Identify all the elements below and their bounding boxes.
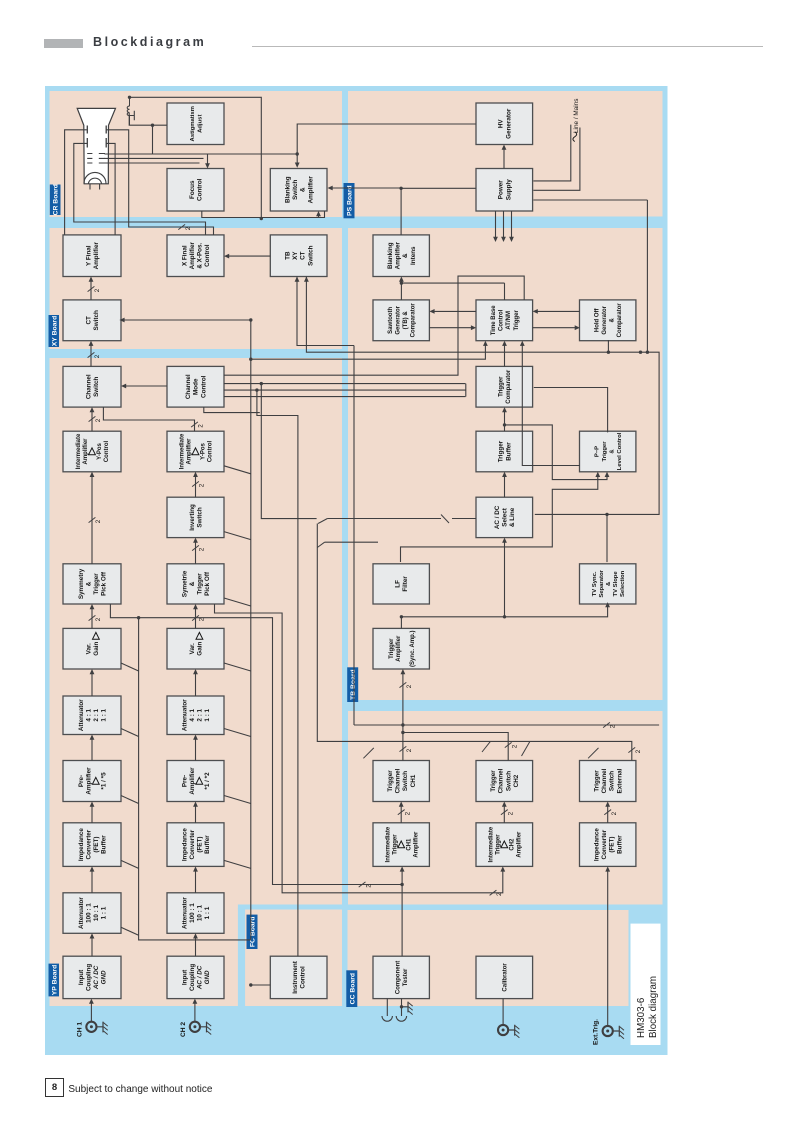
block: HV generator xyxy=(476,103,533,145)
svg-text:Y-Pos: Y-Pos xyxy=(200,443,206,460)
svg-text:2: 2 xyxy=(610,811,617,815)
svg-text:AT/NM: AT/NM xyxy=(506,311,512,330)
svg-text:Impedance: Impedance xyxy=(181,828,188,861)
svg-text:XY Board: XY Board xyxy=(51,316,58,346)
wire CRT grid 2 xyxy=(104,157,203,159)
label line/mains xyxy=(572,132,576,142)
svg-text:Coupling: Coupling xyxy=(85,964,92,991)
wire channel mode control out a xyxy=(223,396,465,398)
BNC connector calibrator xyxy=(498,1025,508,1035)
block: CH1 variable gain xyxy=(63,628,121,669)
header title xyxy=(93,35,206,49)
stub into blanking switch xyxy=(317,216,319,218)
wire component tester -> bus xyxy=(401,885,403,957)
svg-text:Attenuator: Attenuator xyxy=(181,699,188,731)
svg-text:Astigmatism: Astigmatism xyxy=(189,106,195,141)
block: CT switch xyxy=(63,300,121,341)
svg-text:Filter: Filter xyxy=(402,576,409,592)
block: CH1 pre-amplifier xyxy=(63,761,121,802)
svg-text:2: 2 xyxy=(95,617,102,621)
board label TB xyxy=(347,667,358,702)
svg-text:X Final: X Final xyxy=(181,245,188,266)
branch -> focus control xyxy=(207,154,297,165)
svg-text:1 : 1: 1 : 1 xyxy=(204,906,211,919)
wire X final to CRT plate via street b xyxy=(106,130,213,235)
block: Y final amplifier xyxy=(63,235,121,277)
bus TBC to blanking amplifier feed xyxy=(401,282,504,284)
svg-text:Control: Control xyxy=(196,178,203,201)
wire chain CH2 c5->c6 xyxy=(194,674,196,697)
wire trigger bus -> TBC input xyxy=(250,345,485,359)
block: trigger amplifier (sync amp) xyxy=(373,628,429,669)
svg-text:Trigger: Trigger xyxy=(388,638,394,659)
svg-text:(FET): (FET) xyxy=(196,837,203,853)
wire CT switch->Y final xyxy=(90,281,92,300)
svg-text:Generator: Generator xyxy=(602,305,608,334)
wire intermediate trigger -> trigger channel switch r4 xyxy=(400,806,402,823)
wire hold off -> TBC xyxy=(536,310,580,312)
wire AC/DC -> trigger buffer xyxy=(503,476,505,497)
wire chain CH2 c3->c4 xyxy=(194,806,196,823)
svg-text:Symmetry: Symmetry xyxy=(77,568,84,599)
wire tap -> TV sync separator xyxy=(606,514,608,562)
svg-text:Focus: Focus xyxy=(188,180,195,199)
wire trigger channel switches -> trigger amplifier xyxy=(401,674,403,761)
wire blanking amplifier -> blanking switch xyxy=(332,188,401,235)
stub control c5 r1 xyxy=(121,729,139,737)
PS Board region xyxy=(348,91,663,217)
block: time base control xyxy=(476,300,533,341)
wire chain CH2 c6->c7 xyxy=(194,609,196,629)
svg-text:Adjust: Adjust xyxy=(197,115,203,133)
svg-text:Channel: Channel xyxy=(85,374,92,399)
board label CR xyxy=(49,185,60,216)
block: ext trigger impedance converter xyxy=(579,823,635,867)
svg-text:Control: Control xyxy=(498,309,504,331)
svg-text:Inverting: Inverting xyxy=(188,504,195,531)
svg-text:TV Sync.: TV Sync. xyxy=(591,571,597,596)
svg-text:Amplifier: Amplifier xyxy=(83,438,89,465)
svg-text:2: 2 xyxy=(511,744,518,748)
svg-text:Amplifier: Amplifier xyxy=(188,767,195,795)
svg-text:Intens: Intens xyxy=(409,246,416,265)
block: channel mode control xyxy=(167,366,224,407)
connector channel mode control outs xyxy=(464,384,466,397)
wire component tester terminal b xyxy=(400,999,402,1016)
svg-text:Trigger: Trigger xyxy=(490,770,497,792)
svg-text:Buffer: Buffer xyxy=(204,835,211,854)
rotated block diagram xyxy=(45,86,668,1055)
header rule xyxy=(252,46,763,47)
svg-text:CH1: CH1 xyxy=(409,774,416,787)
svg-text:Generator: Generator xyxy=(505,108,512,139)
svg-text:TB: TB xyxy=(284,251,291,260)
svg-text:Channel: Channel xyxy=(601,768,608,793)
svg-text:2: 2 xyxy=(406,748,413,752)
stub control c2 r1 xyxy=(121,927,139,935)
diagram background (light blue) xyxy=(45,86,668,1055)
svg-text:2: 2 xyxy=(365,884,372,888)
svg-text:Attenuator: Attenuator xyxy=(77,699,84,731)
wire component tester terminal a xyxy=(386,999,388,1016)
svg-text:LF: LF xyxy=(394,580,401,588)
bus instrument control from channel mode wire xyxy=(256,390,297,956)
CR Board region xyxy=(49,91,342,217)
svg-text:1 : 1: 1 : 1 xyxy=(100,906,107,919)
wire CH1 BNC -> input coupling xyxy=(90,1003,92,1021)
title box HM303-6 Block diagram xyxy=(630,924,660,1045)
svg-text:*1 / *5: *1 / *5 xyxy=(100,772,107,790)
stub control c3 r1 xyxy=(121,860,139,868)
svg-text:Gain: Gain xyxy=(196,642,203,656)
svg-text:Trigger: Trigger xyxy=(495,834,501,855)
svg-text:Amplifier: Amplifier xyxy=(186,438,192,465)
svg-text:Y-Pos: Y-Pos xyxy=(97,443,103,460)
wire TB XY CT input a from XY line xyxy=(297,277,354,346)
block: CH2 input attenuator xyxy=(167,893,224,934)
svg-text:Pre-: Pre- xyxy=(181,775,188,787)
bus trigger channel b -> TCS CH2 xyxy=(402,733,507,761)
svg-text:Coupling: Coupling xyxy=(188,964,195,991)
block: CH2 step attenuator xyxy=(167,696,224,735)
wire channel switch->CT switch xyxy=(90,345,92,366)
svg-text:2 : 1: 2 : 1 xyxy=(93,708,100,721)
svg-text:Hold Off: Hold Off xyxy=(594,307,600,332)
branch astigmatism line -> CRT grid xyxy=(104,125,152,154)
wire trigger source line B -> AC/DC select xyxy=(327,518,441,520)
svg-text:10 : 1: 10 : 1 xyxy=(93,905,100,922)
svg-text:Trigger: Trigger xyxy=(497,440,504,462)
svg-text:Switch: Switch xyxy=(608,771,615,791)
svg-text:1 : 1: 1 : 1 xyxy=(100,708,107,721)
svg-text:2: 2 xyxy=(404,811,411,815)
header grey bar xyxy=(44,39,83,49)
slash2 var gain out CH1 xyxy=(88,615,95,620)
block: blanking amplifier & intens xyxy=(373,235,429,277)
svg-text:(FET): (FET) xyxy=(608,837,615,853)
block: sawtooth generator & comparator xyxy=(373,300,429,341)
wire power supply rail xyxy=(502,211,504,238)
block: CH2 symmetry & trigger pickoff xyxy=(167,564,224,604)
block: trigger channel switch CH1 xyxy=(373,761,429,802)
stub control c3 r2 xyxy=(224,860,251,868)
wire chain CH1 c3->c4 xyxy=(91,806,93,823)
svg-text:Block diagram: Block diagram xyxy=(648,976,659,1038)
svg-text:CH 1: CH 1 xyxy=(76,1022,83,1037)
svg-text:P–P: P–P xyxy=(594,446,600,457)
block: CH2 impedance converter xyxy=(167,823,224,867)
bus trigger channel a xyxy=(354,724,659,726)
svg-text:Pre-: Pre- xyxy=(77,775,84,787)
svg-text:Switch: Switch xyxy=(196,507,203,527)
board label PS xyxy=(343,183,354,218)
wire sawtooth -> TBC xyxy=(429,327,471,329)
wire chain CH1 c5->c6 xyxy=(91,674,93,697)
svg-text:Switch: Switch xyxy=(505,771,512,791)
svg-text:2: 2 xyxy=(198,547,205,551)
svg-text:CH1: CH1 xyxy=(406,838,412,851)
svg-text:(Sync. Amp.): (Sync. Amp.) xyxy=(409,630,415,666)
BNC connector ext trig xyxy=(602,1026,612,1036)
svg-text:Blanking: Blanking xyxy=(284,176,291,203)
svg-text:Attenuator: Attenuator xyxy=(77,897,84,929)
svg-text:&: & xyxy=(402,253,409,258)
YP Board region xyxy=(49,358,342,1006)
wire hold off output stub xyxy=(607,340,609,352)
wire CH2 BNC -> input coupling xyxy=(193,1003,195,1021)
svg-text:CT: CT xyxy=(299,251,306,260)
wire P-P trigger -> TBC input xyxy=(522,345,580,465)
block: CH2 intermediate trigger amplifier xyxy=(476,823,533,867)
svg-text:Instrument: Instrument xyxy=(292,960,299,993)
block: X final amplifier xyxy=(167,235,224,277)
svg-text:*1 / *2: *1 / *2 xyxy=(204,772,211,790)
svg-text:2: 2 xyxy=(496,892,503,896)
svg-text:Pick Off: Pick Off xyxy=(204,571,211,596)
block: TB XY CT switch xyxy=(270,235,327,277)
wire instrument control top xyxy=(250,984,269,986)
wire hold off -> TB XY CT input b (long line) xyxy=(306,200,647,352)
svg-text:2: 2 xyxy=(609,724,616,728)
svg-text:TV Slope: TV Slope xyxy=(612,571,618,597)
wire bus -> CT switch xyxy=(124,319,251,321)
block: trigger channel switch external xyxy=(579,761,635,802)
svg-text:1 : 1: 1 : 1 xyxy=(204,708,211,721)
block: LF filter xyxy=(373,564,429,604)
wire line/mains a xyxy=(533,125,570,181)
svg-text:(TB) &: (TB) & xyxy=(403,311,409,330)
wire chain CH1 c6->c7 xyxy=(91,609,93,629)
bus external trigger select xyxy=(317,524,632,761)
svg-text:2: 2 xyxy=(635,749,642,753)
block: focus control xyxy=(167,169,224,212)
svg-text:CH2: CH2 xyxy=(512,774,519,787)
wire trigger amplifier output xyxy=(400,617,402,629)
block: trigger comparator xyxy=(476,366,533,407)
svg-text:YP Board: YP Board xyxy=(51,965,58,995)
wire trigger buffer -> P-P trigger xyxy=(504,425,607,480)
wire trigger source select b xyxy=(324,541,377,543)
svg-text:Comparator: Comparator xyxy=(410,303,416,338)
svg-text:CH2: CH2 xyxy=(509,838,515,851)
svg-text:HV: HV xyxy=(497,119,504,129)
svg-text:Input: Input xyxy=(181,969,188,985)
block: CH1 impedance converter xyxy=(63,823,121,867)
svg-text:4 : 1: 4 : 1 xyxy=(188,708,195,721)
svg-text:100 : 1: 100 : 1 xyxy=(188,903,195,923)
svg-text:Control: Control xyxy=(104,441,110,463)
svg-text:Component: Component xyxy=(395,961,401,994)
BNC connector CH1 xyxy=(86,1022,96,1032)
wire power supply rail xyxy=(510,211,512,238)
wire ext trig -> impedance converter xyxy=(606,871,608,1026)
svg-text:HM303-6: HM303-6 xyxy=(636,997,647,1038)
svg-text:Amplifier: Amplifier xyxy=(395,635,401,662)
svg-text:Buffer: Buffer xyxy=(505,442,512,461)
svg-text:&: & xyxy=(299,187,306,192)
svg-text:Select: Select xyxy=(501,507,508,526)
footer notice xyxy=(68,1084,212,1095)
stub control c5 r2 xyxy=(224,729,251,737)
long XY/CT mode line along TB top xyxy=(353,346,355,726)
block: CH2 input coupling xyxy=(167,956,224,998)
svg-text:Trigger: Trigger xyxy=(593,770,600,792)
svg-text:Amplifier: Amplifier xyxy=(93,242,100,270)
block: CH2 pre-amplifier xyxy=(167,761,224,802)
svg-text:Intermediate: Intermediate xyxy=(76,433,82,469)
svg-text:Intermediate: Intermediate xyxy=(179,433,185,469)
svg-text:Control: Control xyxy=(299,966,306,989)
street right of FC xyxy=(237,905,344,910)
svg-text:&: & xyxy=(609,449,615,454)
wire TBC -> blanking bus xyxy=(503,283,505,300)
bus -> AC/DC select source line A xyxy=(261,384,316,519)
svg-text:&: & xyxy=(188,581,195,586)
wire LF filter -> P-P trigger xyxy=(400,476,597,562)
stub control c7 r2 xyxy=(224,598,251,606)
svg-text:CR Board: CR Board xyxy=(52,184,59,215)
CC Board region xyxy=(347,910,628,1006)
block: CH1 input attenuator xyxy=(63,893,121,934)
svg-text:Trigger: Trigger xyxy=(513,309,519,330)
wire trigger comparator -> time base control xyxy=(503,345,505,366)
svg-text:Control: Control xyxy=(204,244,211,267)
svg-text:Converter: Converter xyxy=(601,829,608,859)
svg-text:Blanking: Blanking xyxy=(387,242,394,269)
svg-text:Amplifier: Amplifier xyxy=(516,831,522,858)
wire trigger buffer -> trigger comparator xyxy=(503,412,505,432)
svg-text:Channel: Channel xyxy=(394,768,401,793)
wire CH1 pickoff->intermediate xyxy=(91,476,93,564)
wire chain CH2 c1->c2 xyxy=(194,938,196,956)
wire TB XY CT switch -> X final amplifier xyxy=(228,255,270,257)
wire channel mode control -> channel switch xyxy=(125,385,167,387)
wire chain CH1 c4->c5 xyxy=(91,739,93,761)
trigger switch region (TB Board) xyxy=(348,711,663,905)
svg-text:Var.: Var. xyxy=(85,643,92,654)
wire chain CH1 c1->c2 xyxy=(91,938,93,956)
block: blanking switch & amplifier xyxy=(270,169,327,212)
wire chain CH2 c8->c9 xyxy=(194,476,196,497)
wire focus control <-> blanking switch street run xyxy=(201,211,324,218)
XY Board region xyxy=(49,228,342,349)
stub control c4 r1 xyxy=(121,796,139,804)
svg-text:Comparator: Comparator xyxy=(617,303,623,338)
svg-text:4 : 1: 4 : 1 xyxy=(85,708,92,721)
block: trigger channel switch CH2 xyxy=(476,761,533,802)
svg-text:Power: Power xyxy=(497,180,504,199)
block: power supply xyxy=(476,169,533,212)
wire CRT grid 1 -> HV/BSA junction line xyxy=(104,153,297,155)
svg-text:Generator: Generator xyxy=(395,305,401,334)
block: instrument control (FC board) xyxy=(270,956,327,998)
svg-text:AC / DC: AC / DC xyxy=(196,965,203,990)
svg-text:(FET): (FET) xyxy=(93,837,100,853)
svg-text:2: 2 xyxy=(507,811,514,815)
svg-text:Attenuator: Attenuator xyxy=(181,897,188,929)
wire channel mode control -> time base control xyxy=(223,276,523,375)
trace rotation coil xyxy=(128,97,130,125)
stub control c6 r2 xyxy=(224,663,251,671)
svg-text:&: & xyxy=(85,581,92,586)
wire TBC -> sawtooth xyxy=(434,310,476,312)
svg-text:Trigger: Trigger xyxy=(392,834,398,855)
svg-text:Ext.Trig.: Ext.Trig. xyxy=(592,1019,599,1045)
svg-text:2: 2 xyxy=(95,519,102,523)
svg-text:XY: XY xyxy=(292,251,299,260)
block: AC/DC select & line xyxy=(476,497,533,537)
bus trigger amp output down xyxy=(401,607,607,617)
stub control c4 r2 xyxy=(224,796,251,804)
svg-text:Converter: Converter xyxy=(85,829,92,859)
svg-text:Var.: Var. xyxy=(188,643,195,654)
svg-text:Intermediate: Intermediate xyxy=(385,826,391,862)
svg-text:10 : 1: 10 : 1 xyxy=(196,905,203,922)
bus CH1 trigger pickoff -> intermediate trigger CH1 xyxy=(110,604,402,885)
wire chain CH1 c2->c3 xyxy=(91,871,93,893)
svg-text:Switch: Switch xyxy=(307,245,314,265)
svg-text:Trigger: Trigger xyxy=(196,573,203,595)
svg-text:GND: GND xyxy=(204,970,211,984)
svg-text:Control: Control xyxy=(207,441,213,463)
stub control c6 r1 xyxy=(121,663,139,671)
wire channel mode control out c xyxy=(223,383,465,385)
svg-text:Level Control: Level Control xyxy=(617,432,623,470)
wire intermediate trigger -> trigger channel switch r6 xyxy=(606,806,608,823)
block: CH1 input coupling xyxy=(63,956,121,998)
block: P-P trigger & level control xyxy=(579,431,635,472)
wire power supply rail xyxy=(494,211,496,238)
wire power supply -> blanking amp junction xyxy=(401,187,476,189)
svg-text:&: & xyxy=(609,317,615,322)
svg-text:2: 2 xyxy=(406,684,413,688)
block: hold off generator xyxy=(579,300,635,341)
CRT cathode ray tube xyxy=(77,108,115,183)
stub control c9 r2 xyxy=(224,466,251,474)
block: TV sync separator xyxy=(579,564,635,604)
wire HV generator -> blanking switch line xyxy=(297,124,476,164)
footer page number box xyxy=(45,1078,64,1097)
svg-text:CC Board: CC Board xyxy=(349,973,356,1004)
wire line trigger -> AC/DC select (along bottom) xyxy=(534,352,658,514)
svg-text:Impedance: Impedance xyxy=(593,828,600,861)
svg-text:2: 2 xyxy=(198,483,205,487)
svg-text:GND: GND xyxy=(100,970,107,984)
svg-text:Input: Input xyxy=(77,969,84,985)
svg-text:Converter: Converter xyxy=(188,829,195,859)
svg-text:Gain: Gain xyxy=(93,642,100,656)
block: CH2 intermediate amplifier xyxy=(167,431,224,472)
svg-text:Calibrator: Calibrator xyxy=(502,963,508,992)
svg-text:Pick Off: Pick Off xyxy=(100,571,107,596)
svg-text:Control: Control xyxy=(200,375,207,398)
wire chain CH2 c2->c3 xyxy=(194,871,196,893)
wire Y final to CRT lower plate xyxy=(106,143,115,235)
wire chain CH2 c7->c8 xyxy=(194,542,196,564)
svg-text:Switch: Switch xyxy=(93,310,100,330)
svg-text:&: & xyxy=(605,581,611,586)
svg-text:Channel: Channel xyxy=(185,374,192,399)
svg-text:PS Board: PS Board xyxy=(346,185,353,216)
svg-text:AC / DC: AC / DC xyxy=(493,505,500,529)
wire CH2 intermediate -> channel switch xyxy=(103,407,194,431)
block: calibrator xyxy=(476,956,533,998)
svg-text:& X-Pos.: & X-Pos. xyxy=(196,243,203,269)
block: astigmatism adjust xyxy=(167,103,224,145)
svg-text:Amplifier: Amplifier xyxy=(307,176,314,204)
svg-text:Amplifier: Amplifier xyxy=(413,831,419,858)
board label XY xyxy=(48,315,59,347)
